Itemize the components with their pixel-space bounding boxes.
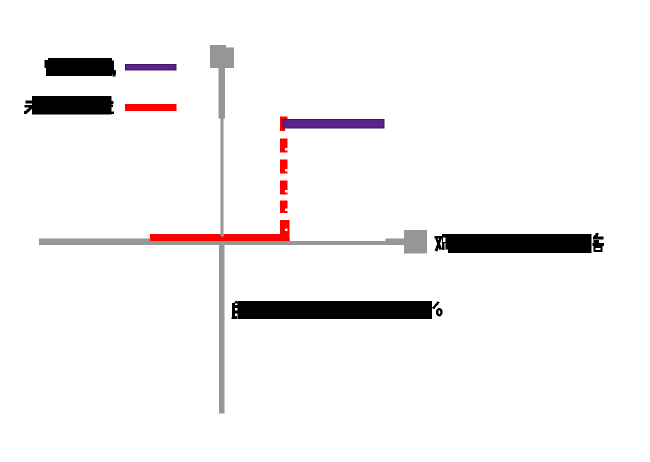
red dash 6 merging into payoff line <box>280 220 289 240</box>
red dashed vertical jump line: dash 1 <box>280 117 288 132</box>
legend row 2 text blob (bold CJK) <box>24 96 114 114</box>
x-axis top strip right segment <box>385 239 404 241</box>
bottom annotation text blob (bold CJK) <box>231 301 431 320</box>
red dash 4 <box>280 181 288 195</box>
white details in first/last label chars <box>443 238 446 242</box>
notch cuts on dashes <box>285 129 288 131</box>
x-axis label text blob (bold CJK) <box>435 233 604 253</box>
x-axis main bar <box>39 241 404 245</box>
red dash 2 <box>280 139 288 153</box>
legend: purple line sample <box>126 64 176 70</box>
y-axis lower thick segment <box>219 238 225 413</box>
red dash 5 <box>280 201 288 214</box>
red dash 3 <box>280 160 288 174</box>
percent sign tail (slash + lower ring; left ring merged in blob) <box>433 302 441 316</box>
y-axis upper thick segment <box>219 68 225 119</box>
legend: red line sample <box>125 104 177 111</box>
x-axis top strip left segment <box>39 239 290 241</box>
x-axis right square marker <box>404 230 427 254</box>
red payoff line along x-axis <box>150 234 290 241</box>
thin y-axis nub drawn over the red line at the crossing <box>221 234 224 237</box>
legend row 1 text blob (bold CJK) <box>45 58 116 77</box>
purple payoff line (upper level) <box>283 120 384 128</box>
y-axis thin middle segment <box>221 118 224 240</box>
y-axis top square marker <box>210 45 234 68</box>
